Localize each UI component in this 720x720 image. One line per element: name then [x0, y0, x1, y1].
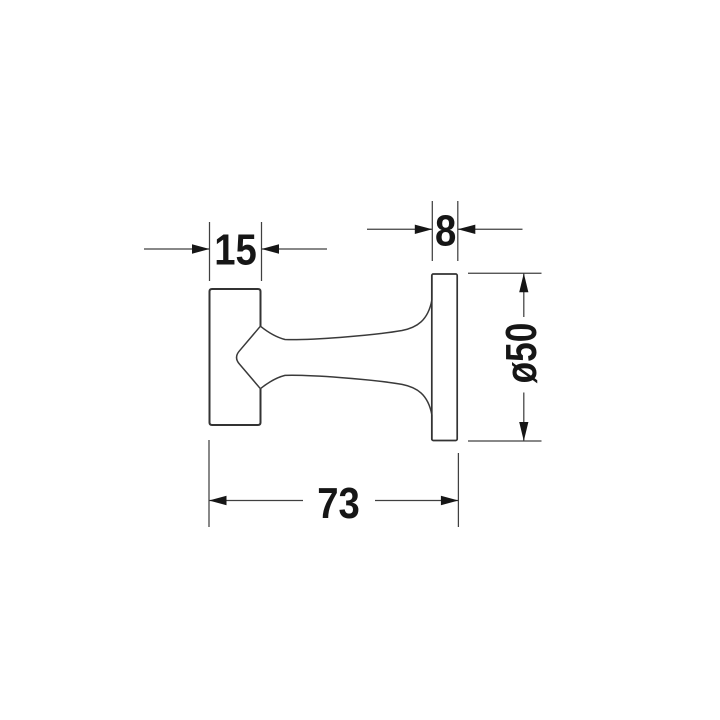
conical recess chevron on knob: [237, 326, 261, 389]
dimension 8: extension lines: [431, 201, 433, 261]
dimension 15: arrowheads: [192, 244, 210, 253]
svg-text:ø50: ø50: [497, 323, 546, 384]
dimension 8: arrowheads: [415, 225, 433, 234]
svg-text:15: 15: [214, 225, 257, 274]
neck bottom outline: [260, 375, 432, 440]
dimension 73: dimension line segments: [209, 500, 303, 502]
dimension diameter 50: arrowheads: [519, 273, 528, 292]
dimension 73: arrowheads: [209, 496, 227, 505]
svg-text:8: 8: [435, 206, 456, 255]
wall flange rectangle (side view of mounting plate): [432, 274, 457, 441]
knob face rectangle (side view of front disc, right edge broken at neck): [210, 289, 261, 425]
dimension 15: leader lines: [144, 248, 210, 250]
dimension diameter 50: extension lines: [468, 272, 542, 274]
dimension 8: leader lines: [367, 228, 432, 230]
dimension 73: extension lines: [208, 440, 210, 527]
dimension diameter 50: dimension line segments: [523, 273, 525, 317]
dimension 15: extension lines: [209, 222, 211, 281]
svg-text:73: 73: [317, 479, 360, 528]
neck top outline: [260, 275, 432, 340]
